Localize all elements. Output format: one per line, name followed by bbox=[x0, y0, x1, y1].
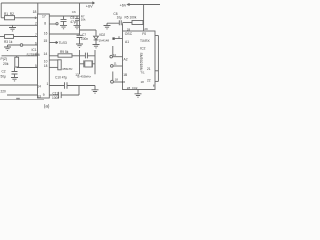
svg-text:18: 18 bbox=[33, 10, 37, 14]
wire pin5 bbox=[17, 67, 38, 69]
wire pin13 bbox=[7, 94, 38, 96]
stray blob bottom left bbox=[16, 98, 20, 100]
svg-text:22: 22 bbox=[147, 78, 151, 82]
ground left of pin6 bbox=[4, 47, 11, 50]
wire pin2 bbox=[0, 24, 38, 26]
svg-text:A1: A1 bbox=[125, 40, 129, 44]
terminal K2 bbox=[111, 65, 114, 68]
capacitor C11 bbox=[49, 92, 79, 98]
ground under C5 bbox=[74, 25, 81, 28]
resistor R5 bbox=[123, 22, 133, 24]
svg-text:47µ: 47µ bbox=[70, 20, 76, 24]
svg-text:20k: 20k bbox=[3, 62, 9, 66]
wire stub pin21 bbox=[155, 70, 158, 72]
svg-text:11: 11 bbox=[114, 62, 117, 66]
svg-text:18: 18 bbox=[44, 64, 48, 68]
svg-text:IC2: IC2 bbox=[140, 47, 146, 51]
resistor R9 bbox=[49, 55, 58, 57]
svg-text:B 455kHz: B 455kHz bbox=[78, 75, 92, 79]
ground C8 bbox=[104, 23, 111, 29]
svg-text:C10 47µ: C10 47µ bbox=[55, 75, 67, 79]
svg-text:14: 14 bbox=[37, 85, 41, 89]
svg-text:36: 36 bbox=[122, 80, 126, 84]
svg-text:R1: R1 bbox=[4, 12, 8, 16]
ground bottom middle bbox=[92, 86, 99, 94]
wire stub IC2 right top bbox=[155, 35, 158, 37]
svg-text:14: 14 bbox=[44, 52, 48, 56]
svg-text:T/1: T/1 bbox=[140, 71, 145, 75]
terminal K3 bbox=[111, 80, 114, 83]
svg-text:220: 220 bbox=[1, 89, 7, 93]
wire junction verticals bbox=[78, 86, 80, 96]
svg-text:18: 18 bbox=[141, 80, 145, 84]
svg-text:R9 5k: R9 5k bbox=[60, 50, 69, 54]
svg-text:C6: C6 bbox=[72, 10, 76, 14]
svg-text:7: 7 bbox=[35, 33, 37, 37]
resistor R3 bbox=[0, 36, 5, 38]
crystal net left rail bbox=[79, 50, 81, 74]
svg-text:P(Z): P(Z) bbox=[1, 57, 8, 61]
capacitor series top branch bbox=[80, 53, 96, 59]
arrow +6V right bbox=[127, 3, 129, 5]
svg-text:C2: C2 bbox=[2, 70, 6, 74]
potentiometer P2 bbox=[15, 57, 19, 67]
svg-text:F0: F0 bbox=[142, 32, 146, 36]
svg-text:1N4148: 1N4148 bbox=[99, 39, 110, 43]
wire pin6 with terminal circle bbox=[23, 44, 38, 46]
svg-text:+6V: +6V bbox=[120, 3, 127, 7]
wire pin8 terminal bbox=[49, 23, 56, 25]
resistor vertical at pin10 bbox=[49, 59, 58, 61]
svg-text:10k: 10k bbox=[81, 18, 86, 22]
capacitor C7 in drop bbox=[77, 35, 83, 44]
ground under C2 bbox=[11, 78, 18, 81]
capacitor C5 bbox=[75, 16, 79, 25]
svg-text:SJT8966: SJT8966 bbox=[27, 53, 40, 57]
wire bus left drop bbox=[0, 3, 2, 18]
svg-text:455kHz: 455kHz bbox=[62, 67, 73, 71]
ground under C4 bbox=[60, 25, 67, 28]
wire pin16 bbox=[49, 33, 79, 35]
svg-text:21: 21 bbox=[147, 67, 151, 71]
IC2 box bbox=[123, 31, 156, 90]
capacitor C8 bbox=[107, 20, 121, 25]
key chain vertical lower bbox=[112, 72, 114, 81]
wire +6V top bus bbox=[1, 2, 94, 4]
svg-text:+6V: +6V bbox=[86, 4, 93, 8]
wire to diode bbox=[80, 30, 97, 36]
svg-text:50µ: 50µ bbox=[1, 75, 7, 79]
wire drop to IC2 top bbox=[143, 5, 145, 32]
svg-text:28: 28 bbox=[127, 86, 131, 90]
svg-text:5: 5 bbox=[35, 64, 37, 68]
wire +6V right bbox=[127, 4, 160, 6]
svg-text:13: 13 bbox=[37, 94, 41, 98]
wire bus drop x79.5 bbox=[79, 3, 81, 35]
svg-text:6: 6 bbox=[35, 41, 37, 45]
svg-text:R5 100k: R5 100k bbox=[125, 16, 137, 20]
svg-text:A2: A2 bbox=[124, 58, 128, 62]
crystal B1 bbox=[80, 60, 96, 67]
svg-text:OSC: OSC bbox=[125, 32, 133, 36]
svg-text:9: 9 bbox=[43, 93, 45, 97]
svg-text:TX/RX: TX/RX bbox=[140, 39, 151, 43]
svg-text:SM5021BN: SM5021BN bbox=[139, 53, 143, 71]
wire bottom stray bbox=[0, 99, 44, 101]
svg-text:29: 29 bbox=[144, 27, 148, 31]
svg-text:15: 15 bbox=[44, 39, 48, 43]
capacitor C10 bbox=[49, 82, 95, 88]
ground under IC2 bbox=[135, 90, 142, 98]
terminal pad square bbox=[112, 37, 114, 39]
svg-text:TL/03: TL/03 bbox=[59, 41, 67, 45]
svg-text:R3 1k: R3 1k bbox=[4, 40, 13, 44]
wire right rail bbox=[157, 36, 159, 82]
ground under pin2 wire bbox=[9, 25, 16, 31]
svg-text:C11: C11 bbox=[53, 91, 59, 95]
capacitor C2 bbox=[12, 68, 18, 78]
svg-text:28: 28 bbox=[127, 27, 131, 31]
svg-text:1: 1 bbox=[35, 16, 37, 20]
wire stub pin22 bbox=[155, 80, 158, 82]
wire bus drop to IC1 top bbox=[37, 3, 39, 14]
svg-text:F02: F02 bbox=[132, 86, 138, 90]
crystal net right rail bbox=[94, 50, 96, 74]
svg-text:8: 8 bbox=[44, 21, 46, 25]
diode VD2 bbox=[94, 36, 99, 44]
svg-text:100k: 100k bbox=[52, 96, 59, 100]
blob bottom right corner bbox=[153, 85, 155, 87]
wire pin4 bbox=[2, 55, 38, 57]
svg-text:16: 16 bbox=[44, 32, 48, 36]
svg-text:17: 17 bbox=[42, 14, 46, 18]
svg-text:100n: 100n bbox=[81, 37, 88, 41]
svg-text:18: 18 bbox=[115, 78, 119, 82]
terminal K1 bbox=[110, 55, 113, 58]
svg-text:(a): (a) bbox=[44, 104, 50, 109]
key chain vertical upper bbox=[112, 46, 114, 55]
svg-text:10µ: 10µ bbox=[117, 16, 123, 20]
resistor R1 bbox=[1, 17, 4, 19]
IC1 box bbox=[38, 14, 50, 98]
wire pin15 with arrow bbox=[55, 42, 58, 44]
wire bus node to IC2 bbox=[122, 23, 124, 31]
svg-text:10: 10 bbox=[113, 53, 117, 57]
svg-text:VD2: VD2 bbox=[99, 33, 105, 37]
capacitor C4 bbox=[61, 16, 67, 25]
arrow bus end bbox=[92, 2, 94, 4]
svg-text:13: 13 bbox=[75, 73, 79, 77]
ground under C7 bbox=[76, 44, 83, 47]
svg-text:4: 4 bbox=[35, 52, 37, 56]
svg-text:2: 2 bbox=[35, 22, 37, 26]
ground under VD2 bbox=[93, 45, 100, 48]
terminal pad input bbox=[115, 36, 123, 38]
wire pin17 bbox=[49, 15, 79, 17]
svg-text:R2: R2 bbox=[10, 12, 14, 16]
wire pin14 bbox=[0, 84, 38, 86]
svg-text:1: 1 bbox=[47, 82, 49, 86]
